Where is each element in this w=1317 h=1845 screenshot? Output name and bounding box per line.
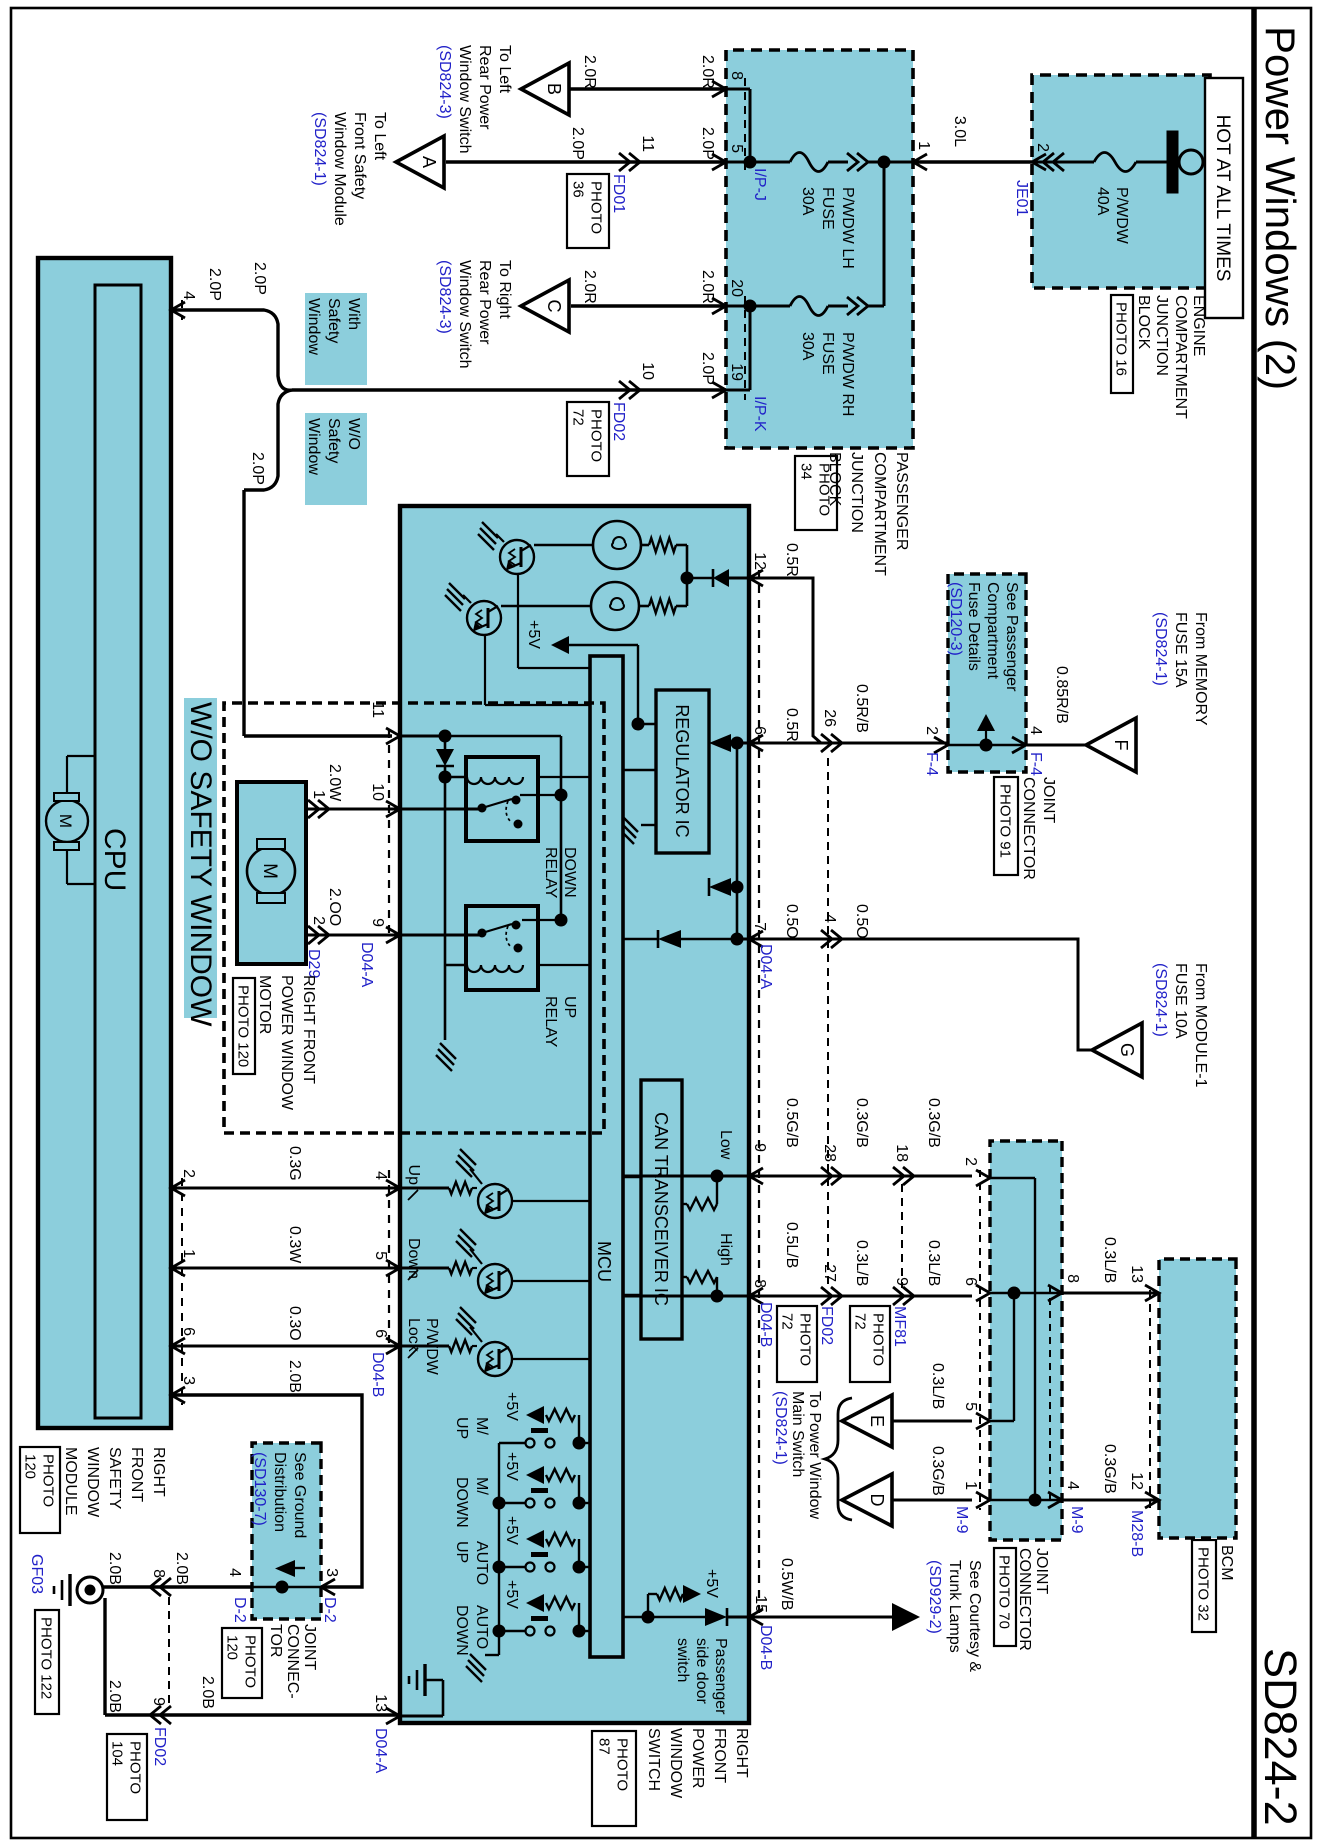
svg-text:P/WDW: P/WDW bbox=[1113, 187, 1130, 245]
svg-text:Window Switch: Window Switch bbox=[456, 45, 473, 153]
svg-text:2.0B: 2.0B bbox=[199, 1676, 216, 1709]
svg-text:0.5R/B: 0.5R/B bbox=[853, 684, 870, 733]
svg-text:See Passenger: See Passenger bbox=[1003, 582, 1020, 692]
svg-text:11: 11 bbox=[639, 135, 656, 152]
svg-text:0.5L/B: 0.5L/B bbox=[783, 1222, 800, 1268]
svg-text:AUTO: AUTO bbox=[473, 1541, 490, 1585]
svg-text:SD824-2: SD824-2 bbox=[1255, 1648, 1306, 1826]
svg-text:2.0B: 2.0B bbox=[106, 1552, 123, 1585]
svg-text:WINDOW: WINDOW bbox=[667, 1728, 684, 1799]
svg-text:2: 2 bbox=[310, 916, 327, 925]
svg-text:M28-B: M28-B bbox=[1128, 1510, 1145, 1557]
svg-text:36: 36 bbox=[570, 181, 587, 198]
svg-text:30A: 30A bbox=[799, 332, 816, 361]
svg-text:28: 28 bbox=[821, 1144, 838, 1162]
svg-text:CPU: CPU bbox=[98, 828, 131, 891]
svg-text:M: M bbox=[259, 863, 280, 879]
svg-text:0.5O: 0.5O bbox=[853, 904, 870, 939]
svg-text:FRONT: FRONT bbox=[128, 1447, 145, 1502]
svg-text:POWER: POWER bbox=[689, 1728, 706, 1788]
svg-text:D04-A: D04-A bbox=[757, 944, 774, 990]
svg-text:20: 20 bbox=[728, 279, 745, 297]
svg-text:Trunk Lamps: Trunk Lamps bbox=[946, 1560, 963, 1653]
svg-text:PASSENGER: PASSENGER bbox=[893, 452, 910, 550]
svg-text:MCU: MCU bbox=[594, 1241, 614, 1282]
svg-text:D04-B: D04-B bbox=[369, 1352, 386, 1397]
svg-text:Fuse Details: Fuse Details bbox=[965, 582, 982, 671]
svg-text:F-4: F-4 bbox=[923, 752, 940, 776]
svg-text:D-2: D-2 bbox=[231, 1597, 248, 1623]
svg-text:D: D bbox=[867, 1494, 887, 1507]
svg-text:0.3L/B: 0.3L/B bbox=[853, 1240, 870, 1286]
svg-text:+5V: +5V bbox=[503, 1516, 520, 1545]
svg-text:FD02: FD02 bbox=[818, 1306, 835, 1345]
svg-text:To Power Window: To Power Window bbox=[806, 1391, 823, 1519]
svg-text:104: 104 bbox=[109, 1741, 126, 1766]
svg-text:0.3G/B: 0.3G/B bbox=[1101, 1444, 1118, 1494]
svg-text:19: 19 bbox=[728, 363, 745, 381]
svg-text:DOWN: DOWN bbox=[453, 1477, 470, 1528]
svg-text:2.0P: 2.0P bbox=[249, 452, 266, 485]
svg-text:D04-A: D04-A bbox=[358, 942, 375, 988]
svg-text:9: 9 bbox=[751, 1143, 768, 1152]
svg-text:PHOTO: PHOTO bbox=[242, 1635, 259, 1688]
svg-text:Passenger: Passenger bbox=[712, 1638, 729, 1715]
svg-text:ENGINE: ENGINE bbox=[1190, 295, 1207, 356]
svg-text:JUNCTION: JUNCTION bbox=[848, 452, 865, 533]
svg-text:FD02: FD02 bbox=[610, 402, 627, 441]
svg-text:5: 5 bbox=[728, 144, 745, 153]
svg-text:Safety: Safety bbox=[325, 298, 342, 343]
svg-text:2.0P: 2.0P bbox=[251, 262, 268, 295]
svg-text:Window: Window bbox=[305, 298, 322, 355]
svg-text:JOINT: JOINT bbox=[301, 1624, 318, 1670]
svg-text:PHOTO: PHOTO bbox=[127, 1741, 144, 1794]
svg-text:PHOTO 122: PHOTO 122 bbox=[38, 1617, 55, 1699]
svg-text:PHOTO 70: PHOTO 70 bbox=[996, 1555, 1013, 1629]
svg-text:2.0B: 2.0B bbox=[173, 1552, 190, 1585]
svg-text:0.3L/B: 0.3L/B bbox=[1101, 1237, 1118, 1283]
svg-text:34: 34 bbox=[798, 463, 815, 480]
svg-text:PHOTO: PHOTO bbox=[588, 181, 605, 234]
svg-text:Up: Up bbox=[405, 1165, 422, 1186]
svg-text:Down: Down bbox=[405, 1238, 422, 1279]
svg-text:W/O SAFETY WINDOW: W/O SAFETY WINDOW bbox=[184, 702, 217, 1027]
svg-text:12: 12 bbox=[1128, 1472, 1145, 1490]
svg-text:FRONT: FRONT bbox=[711, 1728, 728, 1783]
svg-text:BLOCK: BLOCK bbox=[826, 452, 843, 507]
svg-text:JUNCTION: JUNCTION bbox=[1153, 295, 1170, 376]
svg-text:Power Windows (2): Power Windows (2) bbox=[1257, 26, 1304, 390]
svg-text:Low: Low bbox=[717, 1130, 734, 1160]
svg-text:2.0R: 2.0R bbox=[581, 270, 598, 304]
svg-text:15: 15 bbox=[752, 1595, 769, 1613]
svg-text:PHOTO 120: PHOTO 120 bbox=[235, 985, 252, 1067]
svg-text:RIGHT FRONT: RIGHT FRONT bbox=[300, 975, 317, 1084]
svg-text:FD02: FD02 bbox=[151, 1727, 168, 1766]
svg-text:CONNEC-: CONNEC- bbox=[284, 1624, 301, 1699]
svg-text:High: High bbox=[717, 1233, 734, 1266]
svg-text:(SD824-1): (SD824-1) bbox=[1152, 612, 1169, 686]
svg-text:2.0P: 2.0P bbox=[569, 127, 586, 160]
svg-text:6: 6 bbox=[372, 1329, 389, 1338]
svg-text:TOR: TOR bbox=[267, 1624, 284, 1657]
svg-text:MOTOR: MOTOR bbox=[256, 975, 273, 1034]
svg-text:4: 4 bbox=[180, 291, 197, 300]
svg-text:MF81: MF81 bbox=[891, 1306, 908, 1347]
svg-text:PHOTO: PHOTO bbox=[870, 1313, 887, 1366]
svg-text:WINDOW: WINDOW bbox=[84, 1447, 101, 1518]
svg-text:0.3O: 0.3O bbox=[286, 1306, 303, 1341]
svg-text:+5V: +5V bbox=[503, 1392, 520, 1421]
svg-text:FUSE 10A: FUSE 10A bbox=[1172, 963, 1189, 1039]
svg-text:Front Safety: Front Safety bbox=[351, 112, 368, 199]
svg-text:4: 4 bbox=[226, 1568, 243, 1577]
svg-text:2.0B: 2.0B bbox=[286, 1360, 303, 1393]
svg-text:3: 3 bbox=[323, 1568, 340, 1577]
svg-text:2.OO: 2.OO bbox=[326, 888, 343, 926]
svg-text:With: With bbox=[345, 298, 362, 330]
svg-text:+5V: +5V bbox=[525, 620, 542, 649]
svg-text:PHOTO 32: PHOTO 32 bbox=[1195, 1547, 1212, 1621]
svg-text:CAN TRANSCEIVER IC: CAN TRANSCEIVER IC bbox=[651, 1112, 671, 1306]
svg-text:5: 5 bbox=[372, 1251, 389, 1260]
svg-text:RELAY: RELAY bbox=[542, 996, 559, 1048]
svg-text:+5V: +5V bbox=[503, 1580, 520, 1609]
svg-text:9: 9 bbox=[369, 918, 386, 927]
svg-text:(SD824-3): (SD824-3) bbox=[436, 260, 453, 334]
svg-text:From MEMORY: From MEMORY bbox=[1192, 612, 1209, 726]
svg-text:PHOTO: PHOTO bbox=[588, 409, 605, 462]
svg-text:0.3L/B: 0.3L/B bbox=[925, 1240, 942, 1286]
svg-text:72: 72 bbox=[852, 1313, 869, 1330]
svg-text:0.3G: 0.3G bbox=[286, 1146, 303, 1181]
svg-text:D-2: D-2 bbox=[321, 1597, 338, 1623]
svg-text:18: 18 bbox=[893, 1144, 910, 1162]
svg-text:2.0P: 2.0P bbox=[699, 127, 716, 160]
svg-text:8: 8 bbox=[751, 1279, 768, 1288]
svg-text:I/P-K: I/P-K bbox=[751, 396, 768, 432]
svg-text:From MODULE-1: From MODULE-1 bbox=[1192, 963, 1209, 1088]
svg-text:0.5O: 0.5O bbox=[783, 904, 800, 939]
svg-text:M-9: M-9 bbox=[953, 1506, 970, 1534]
svg-text:DOWN: DOWN bbox=[561, 847, 578, 898]
svg-text:UP: UP bbox=[453, 1541, 470, 1563]
svg-text:72: 72 bbox=[570, 409, 587, 426]
svg-text:AUTO: AUTO bbox=[473, 1605, 490, 1649]
svg-text:JE01: JE01 bbox=[1013, 180, 1030, 217]
svg-text:2: 2 bbox=[962, 1157, 979, 1166]
svg-text:To Left: To Left bbox=[371, 112, 388, 161]
svg-text:(SD824-1): (SD824-1) bbox=[1152, 963, 1169, 1037]
svg-text:Window Switch: Window Switch bbox=[456, 260, 473, 368]
svg-text:SWITCH: SWITCH bbox=[645, 1728, 662, 1791]
svg-text:0.3G/B: 0.3G/B bbox=[925, 1098, 942, 1148]
svg-text:PHOTO: PHOTO bbox=[40, 1454, 57, 1507]
svg-text:2: 2 bbox=[1034, 143, 1051, 152]
svg-text:C: C bbox=[544, 300, 564, 313]
svg-text:MODULE: MODULE bbox=[62, 1447, 79, 1515]
svg-text:M: M bbox=[56, 814, 75, 828]
svg-text:1: 1 bbox=[310, 790, 327, 799]
svg-text:D04-B: D04-B bbox=[757, 1302, 774, 1347]
svg-text:Window Module: Window Module bbox=[331, 112, 348, 226]
svg-text:Compartment: Compartment bbox=[984, 582, 1001, 679]
svg-text:30A: 30A bbox=[799, 187, 816, 216]
svg-text:Rear Power: Rear Power bbox=[476, 260, 493, 345]
svg-text:POWER WINDOW: POWER WINDOW bbox=[278, 975, 295, 1111]
svg-text:I/P-J: I/P-J bbox=[751, 168, 768, 201]
svg-text:To Left: To Left bbox=[496, 45, 513, 94]
svg-text:switch: switch bbox=[674, 1638, 691, 1682]
svg-text:P/WDW LH: P/WDW LH bbox=[839, 187, 856, 269]
svg-text:2.0R: 2.0R bbox=[699, 55, 716, 89]
svg-text:0.5R: 0.5R bbox=[783, 543, 800, 577]
svg-text:0.5W/B: 0.5W/B bbox=[778, 1558, 795, 1610]
svg-text:(SD824-1): (SD824-1) bbox=[772, 1391, 789, 1465]
svg-text:GF03: GF03 bbox=[28, 1554, 45, 1594]
svg-text:4: 4 bbox=[1064, 1481, 1081, 1490]
svg-text:+5V: +5V bbox=[503, 1452, 520, 1481]
svg-text:DOWN: DOWN bbox=[453, 1605, 470, 1656]
svg-text:FUSE: FUSE bbox=[819, 187, 836, 230]
svg-text:2.0W: 2.0W bbox=[326, 764, 343, 802]
svg-text:0.3G/B: 0.3G/B bbox=[929, 1446, 946, 1496]
svg-text:Distribution: Distribution bbox=[271, 1452, 288, 1532]
svg-text:D04-A: D04-A bbox=[372, 1728, 389, 1774]
svg-text:40A: 40A bbox=[1094, 187, 1111, 216]
svg-text:P/WDW RH: P/WDW RH bbox=[839, 332, 856, 416]
svg-text:COMPARTMENT: COMPARTMENT bbox=[1172, 295, 1189, 419]
svg-text:CONNECTOR: CONNECTOR bbox=[1016, 1548, 1033, 1651]
svg-text:8: 8 bbox=[728, 71, 745, 80]
svg-text:10: 10 bbox=[369, 783, 386, 801]
svg-text:REGULATOR IC: REGULATOR IC bbox=[672, 704, 692, 837]
svg-text:7: 7 bbox=[751, 922, 768, 931]
svg-text:4: 4 bbox=[372, 1171, 389, 1180]
svg-text:8: 8 bbox=[150, 1569, 167, 1578]
svg-text:1: 1 bbox=[962, 1481, 979, 1490]
svg-text:2.0R: 2.0R bbox=[699, 270, 716, 304]
svg-text:See Courtesy &: See Courtesy & bbox=[966, 1560, 983, 1672]
svg-text:0.5G/B: 0.5G/B bbox=[783, 1098, 800, 1148]
svg-text:SAFETY: SAFETY bbox=[106, 1447, 123, 1510]
svg-text:4: 4 bbox=[1027, 726, 1044, 735]
svg-text:4: 4 bbox=[821, 914, 838, 923]
svg-text:2.0P: 2.0P bbox=[206, 268, 223, 301]
svg-text:0.5R: 0.5R bbox=[783, 708, 800, 742]
svg-text:Main Switch: Main Switch bbox=[789, 1391, 806, 1477]
svg-text:BCM: BCM bbox=[1218, 1545, 1235, 1581]
svg-text:(SD824-1): (SD824-1) bbox=[311, 112, 328, 186]
svg-text:UP: UP bbox=[561, 996, 578, 1018]
svg-text:PHOTO 16: PHOTO 16 bbox=[1113, 302, 1130, 376]
svg-text:(SD120-3): (SD120-3) bbox=[947, 582, 964, 656]
svg-text:CONNECTOR: CONNECTOR bbox=[1020, 777, 1037, 880]
svg-text:Lock: Lock bbox=[405, 1318, 422, 1353]
svg-text:72: 72 bbox=[779, 1313, 796, 1330]
svg-text:A: A bbox=[419, 156, 439, 168]
svg-text:PHOTO: PHOTO bbox=[614, 1738, 631, 1791]
svg-text:0.3G/B: 0.3G/B bbox=[853, 1098, 870, 1148]
svg-text:26: 26 bbox=[821, 709, 838, 727]
svg-text:120: 120 bbox=[224, 1635, 241, 1660]
svg-text:F: F bbox=[1111, 740, 1131, 751]
svg-text:HOT AT ALL TIMES: HOT AT ALL TIMES bbox=[1212, 115, 1233, 282]
svg-text:P/WDW: P/WDW bbox=[423, 1318, 440, 1376]
svg-text:To Right: To Right bbox=[496, 260, 513, 319]
svg-text:1: 1 bbox=[915, 141, 932, 150]
svg-text:0.3L/B: 0.3L/B bbox=[929, 1363, 946, 1409]
svg-text:UP: UP bbox=[453, 1417, 470, 1439]
svg-text:E: E bbox=[867, 1415, 887, 1427]
svg-text:RIGHT: RIGHT bbox=[733, 1728, 750, 1778]
svg-text:(SD929-2): (SD929-2) bbox=[926, 1560, 943, 1634]
svg-text:See Ground: See Ground bbox=[291, 1452, 308, 1538]
svg-text:BLOCK: BLOCK bbox=[1135, 295, 1152, 350]
svg-text:W/O: W/O bbox=[345, 418, 362, 450]
svg-text:+5V: +5V bbox=[703, 1569, 720, 1598]
svg-text:2.0P: 2.0P bbox=[699, 352, 716, 385]
svg-text:5: 5 bbox=[962, 1402, 979, 1411]
svg-text:13: 13 bbox=[1128, 1265, 1145, 1283]
svg-text:0.3W: 0.3W bbox=[286, 1226, 303, 1264]
svg-text:JOINT: JOINT bbox=[1040, 777, 1057, 823]
svg-text:10: 10 bbox=[639, 362, 656, 380]
svg-text:2.0B: 2.0B bbox=[106, 1680, 123, 1713]
svg-text:Window: Window bbox=[305, 418, 322, 475]
svg-text:2: 2 bbox=[923, 726, 940, 735]
svg-text:FUSE: FUSE bbox=[819, 332, 836, 375]
svg-text:3.0L: 3.0L bbox=[951, 116, 968, 147]
svg-text:Safety: Safety bbox=[325, 418, 342, 463]
svg-text:2: 2 bbox=[180, 1169, 197, 1178]
svg-text:9: 9 bbox=[150, 1697, 167, 1706]
svg-text:M/: M/ bbox=[473, 1477, 490, 1495]
svg-text:8: 8 bbox=[1064, 1274, 1081, 1283]
svg-text:B: B bbox=[544, 83, 564, 95]
svg-text:Rear Power: Rear Power bbox=[476, 45, 493, 130]
svg-text:FD01: FD01 bbox=[610, 174, 627, 213]
svg-text:FUSE 15A: FUSE 15A bbox=[1172, 612, 1189, 688]
svg-text:M/: M/ bbox=[473, 1417, 490, 1435]
svg-text:12: 12 bbox=[751, 552, 768, 570]
svg-text:120: 120 bbox=[22, 1454, 39, 1479]
svg-text:RIGHT: RIGHT bbox=[150, 1447, 167, 1497]
svg-text:6: 6 bbox=[751, 726, 768, 735]
svg-text:(SD130-7): (SD130-7) bbox=[251, 1452, 268, 1526]
svg-text:COMPARTMENT: COMPARTMENT bbox=[871, 452, 888, 576]
svg-text:F-4: F-4 bbox=[1027, 752, 1044, 776]
svg-text:side door: side door bbox=[693, 1638, 710, 1704]
svg-text:27: 27 bbox=[821, 1264, 838, 1282]
svg-text:0.85R/B: 0.85R/B bbox=[1053, 666, 1070, 724]
svg-text:M-9: M-9 bbox=[1068, 1506, 1085, 1534]
svg-text:PHOTO: PHOTO bbox=[797, 1313, 814, 1366]
svg-text:2.0R: 2.0R bbox=[581, 55, 598, 89]
svg-text:87: 87 bbox=[596, 1738, 613, 1755]
svg-text:PHOTO 91: PHOTO 91 bbox=[997, 784, 1014, 858]
svg-text:G: G bbox=[1117, 1043, 1137, 1057]
svg-text:D04-B: D04-B bbox=[757, 1625, 774, 1670]
svg-text:RELAY: RELAY bbox=[542, 847, 559, 899]
svg-text:(SD824-3): (SD824-3) bbox=[436, 45, 453, 119]
svg-text:13: 13 bbox=[372, 1694, 389, 1712]
svg-text:JOINT: JOINT bbox=[1033, 1548, 1050, 1594]
